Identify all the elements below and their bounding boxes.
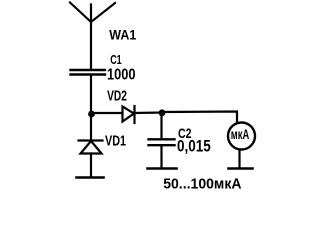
wire C1 to node A [90,76,92,114]
svg-text:C1: C1 [110,52,122,67]
svg-text:VD1: VD1 [105,133,126,150]
ground C2 [148,167,177,170]
svg-text:0,015: 0,015 [177,138,211,156]
wire VD2 to node B [135,111,163,114]
capacitor C1 [71,70,106,75]
wire node B to C2 [160,113,162,139]
svg-text:50...100мкА: 50...100мкА [163,175,241,192]
diode VD1 [79,141,103,154]
wire meter to ground [238,151,240,169]
svg-text:WA1: WA1 [109,27,136,42]
wire node A to VD1 [90,114,92,141]
meter PA1 [228,123,255,150]
wire node B to meter [162,112,237,123]
node A junction dot [88,111,95,118]
ground meter [229,167,253,170]
wire node A to VD2 [92,112,123,114]
ground VD1 [77,176,104,179]
diode VD2 [123,106,135,123]
svg-text:VD2: VD2 [107,89,127,105]
node B junction dot [159,109,166,116]
capacitor C2 [149,139,175,145]
antenna WA1 [70,3,115,69]
wire VD1 to ground [90,154,92,178]
svg-text:мкА: мкА [231,127,250,142]
svg-text:1000: 1000 [107,67,136,84]
wire C2 to ground [160,146,162,168]
